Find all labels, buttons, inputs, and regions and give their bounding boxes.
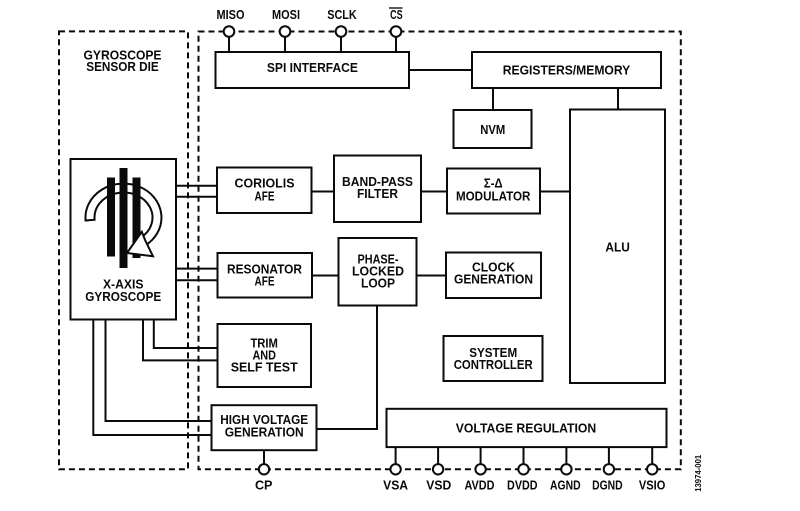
svg-text:VOLTAGE REGULATION: VOLTAGE REGULATION bbox=[456, 421, 597, 436]
svg-text:LOOP: LOOP bbox=[361, 276, 395, 291]
svg-text:AVDD: AVDD bbox=[465, 478, 495, 493]
svg-text:CP: CP bbox=[255, 478, 273, 493]
svg-text:GYROSCOPE: GYROSCOPE bbox=[85, 289, 161, 304]
svg-text:REGISTERS/MEMORY: REGISTERS/MEMORY bbox=[503, 63, 631, 78]
svg-text:SPI INTERFACE: SPI INTERFACE bbox=[267, 60, 358, 75]
svg-text:13974-001: 13974-001 bbox=[693, 454, 703, 491]
svg-text:DGND: DGND bbox=[592, 478, 623, 493]
svg-text:VSIO: VSIO bbox=[639, 478, 666, 493]
svg-text:SCLK: SCLK bbox=[327, 7, 357, 22]
svg-text:AFE: AFE bbox=[255, 274, 275, 289]
svg-text:GENERATION: GENERATION bbox=[454, 272, 533, 287]
svg-text:VSA: VSA bbox=[383, 478, 409, 493]
svg-text:FILTER: FILTER bbox=[357, 186, 399, 201]
svg-text:CS: CS bbox=[390, 7, 403, 22]
svg-text:ALU: ALU bbox=[605, 240, 630, 255]
svg-text:SENSOR DIE: SENSOR DIE bbox=[86, 59, 159, 74]
svg-text:MODULATOR: MODULATOR bbox=[456, 188, 531, 203]
svg-text:GENERATION: GENERATION bbox=[225, 425, 304, 440]
svg-text:DVDD: DVDD bbox=[507, 478, 538, 493]
svg-text:SELF TEST: SELF TEST bbox=[231, 360, 298, 375]
svg-text:CONTROLLER: CONTROLLER bbox=[454, 357, 534, 372]
svg-text:MISO: MISO bbox=[217, 7, 245, 22]
svg-text:MOSI: MOSI bbox=[272, 7, 300, 22]
svg-text:AFE: AFE bbox=[255, 188, 275, 203]
svg-text:VSD: VSD bbox=[426, 478, 451, 493]
svg-text:NVM: NVM bbox=[480, 122, 505, 137]
svg-text:AGND: AGND bbox=[550, 478, 581, 493]
